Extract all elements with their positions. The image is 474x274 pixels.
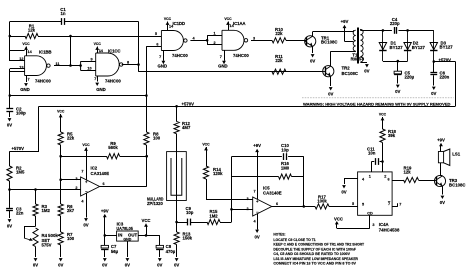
svg-text:0V: 0V (440, 200, 445, 205)
wire R9 rail right (120, 156, 147, 158)
wire R12 top (176, 106, 178, 121)
wire C9 to R15 (191, 222, 208, 224)
svg-text:CONNECT IC4 PIN 16 TO VCC AND: CONNECT IC4 PIN 16 TO VCC AND PIN 8 TO 0… (273, 262, 356, 266)
svg-text:0V: 0V (7, 223, 12, 228)
GM tube cathode (171, 158, 182, 195)
wire IC4 pin7 stub (392, 206, 398, 208)
junction gate1 output (69, 64, 72, 67)
wiper arrow R4 (24, 238, 31, 240)
wire IC3 OUT (138, 235, 160, 237)
ground 0V R7 (59, 258, 63, 261)
wire pin2 stub IC5 (232, 209, 253, 211)
svg-text:1n: 1n (60, 11, 65, 16)
wire gate2 input tie box (80, 61, 82, 70)
ground GND gate2 (97, 76, 99, 82)
svg-text:74HC00: 74HC00 (233, 53, 249, 58)
wire +570V to R2 (10, 151, 40, 153)
ground 0V C5 (396, 85, 400, 88)
svg-text:2: 2 (213, 41, 215, 45)
svg-text:100: 100 (67, 236, 75, 241)
diode D1 (382, 30, 384, 61)
junction VCC tap (145, 234, 148, 237)
svg-text:0V: 0V (431, 91, 436, 96)
svg-text:3: 3 (75, 177, 77, 181)
transformer T1 primary winding (353, 30, 356, 51)
wire R12 to tube (176, 134, 178, 152)
svg-text:BC108C: BC108C (449, 183, 465, 188)
svg-text:7: 7 (159, 55, 161, 59)
ground 0V IC3 (126, 258, 130, 261)
svg-text:CA3140E: CA3140E (91, 171, 110, 176)
junction feedback/output (303, 205, 306, 208)
svg-text:12k: 12k (28, 28, 36, 33)
svg-text:22k: 22k (67, 136, 75, 141)
wire IC3 GND pin (127, 241, 129, 257)
svg-text:100p: 100p (16, 111, 26, 116)
wire IC2 output up (146, 156, 148, 186)
ground 0V C3 (8, 219, 12, 222)
svg-text:10n: 10n (368, 151, 376, 156)
ground GND gate4 (224, 50, 226, 61)
svg-text:VCC: VCC (224, 17, 232, 21)
capacitor C3 (9, 190, 11, 208)
svg-text:220µ: 220µ (405, 75, 415, 80)
wire gate3 pin6 step (146, 46, 161, 48)
svg-text:74HC00: 74HC00 (172, 53, 188, 58)
GM tube V1 outer envelope (167, 152, 187, 201)
speaker LS1 (438, 152, 443, 163)
wire IC5 pin4 (257, 214, 259, 230)
wire R7 bottom (60, 245, 62, 257)
ground 0V C7 (103, 258, 107, 261)
capacitor C11 (375, 158, 377, 165)
svg-text:LOCATE C9 CLOSE TO T1: LOCATE C9 CLOSE TO T1 (273, 238, 315, 242)
ground 0V T1 secondary (365, 64, 369, 67)
svg-text:10p: 10p (186, 210, 194, 215)
wire HV top rail right (399, 30, 434, 32)
wire gate1 output stub (54, 65, 71, 67)
svg-text:1M0: 1M0 (281, 165, 290, 170)
wire R6 column (60, 180, 62, 204)
svg-text:0V: 0V (33, 263, 38, 268)
svg-text:7: 7 (399, 203, 401, 207)
svg-text:22n: 22n (16, 211, 24, 216)
svg-text:VCC: VCC (141, 218, 150, 223)
svg-text:7: 7 (253, 190, 255, 194)
svg-text:100: 100 (153, 136, 161, 141)
junction enable rail / C2 (9, 94, 12, 97)
monostable IC4A box (358, 172, 393, 215)
resistor R16 (279, 174, 292, 179)
svg-text:0V: 0V (125, 263, 130, 268)
wire +570V rail (39, 106, 455, 108)
svg-text:GND: GND (20, 87, 30, 92)
svg-text:560k: 560k (108, 145, 118, 150)
svg-text:BY127: BY127 (412, 45, 426, 50)
svg-text:4M7: 4M7 (182, 125, 191, 130)
svg-text:3: 3 (246, 197, 248, 201)
svg-text:+9V: +9V (341, 19, 349, 24)
wire pin3 stub IC2 (61, 179, 81, 181)
resistor R13 (176, 222, 178, 232)
svg-text:9: 9 (90, 57, 92, 61)
junction D2 top (406, 29, 409, 32)
svg-text:IC1BB: IC1BB (39, 50, 51, 55)
svg-text:6: 6 (388, 178, 390, 182)
transistor TR3 (434, 175, 445, 186)
wire HV top rail left (383, 30, 392, 32)
svg-text:+9V: +9V (253, 143, 261, 148)
svg-text:0V: 0V (102, 263, 107, 268)
svg-text:100k: 100k (317, 199, 327, 204)
svg-text:470µ: 470µ (166, 249, 176, 254)
potentiometer R4 (33, 228, 38, 247)
svg-text:120k: 120k (213, 171, 223, 176)
junction IC2 output/R9/R8 node (145, 155, 148, 158)
capacitor C8 (159, 235, 161, 245)
wire D1-D2 bottom rail (383, 61, 408, 63)
wire IC4 CD pin hook (369, 215, 371, 228)
resistor R8 column with zigzag (144, 132, 149, 145)
svg-text:1M2: 1M2 (42, 208, 51, 213)
svg-text:22k: 22k (275, 58, 283, 63)
wire gate4 output (251, 40, 272, 42)
svg-text:+570V: +570V (182, 101, 195, 106)
svg-text:CD: CD (367, 212, 373, 216)
wire gate2 output (122, 64, 139, 66)
ground 0V C2 (8, 118, 12, 121)
svg-text:220n: 220n (440, 75, 450, 80)
svg-text:0V: 0V (83, 222, 88, 227)
svg-text:5: 5 (155, 32, 157, 36)
wire pin12 loop top (10, 50, 25, 52)
voltage regulator IC3 box (117, 231, 139, 241)
svg-text:+9V: +9V (101, 208, 109, 213)
svg-text:12k: 12k (404, 170, 412, 175)
wire IC2 output (100, 186, 147, 188)
wire TR1 emitter (312, 47, 314, 53)
svg-text:IC1CC: IC1CC (108, 49, 121, 54)
junction R12 tap on +570V rail (175, 105, 178, 108)
ground 0V R4 (34, 258, 38, 261)
op-amp IC2 triangle (81, 177, 100, 196)
resistor R15 (207, 219, 220, 224)
junction tube anode / C9 / R13 (175, 221, 178, 224)
svg-text:BC108C: BC108C (342, 71, 358, 76)
wire pin13 loop bottom (10, 71, 25, 73)
capacitor C6 (433, 62, 435, 73)
wire R19 to TR3 base (419, 180, 435, 182)
svg-text:IC1AA: IC1AA (233, 21, 246, 26)
transformer T1 core (357, 28, 359, 64)
wire feedback right column (303, 157, 305, 207)
svg-text:VCC: VCC (379, 113, 387, 117)
svg-text:2: 2 (384, 175, 386, 179)
junction C11 tee (381, 160, 384, 163)
ground 0V R13 (175, 258, 179, 261)
svg-text:5: 5 (352, 202, 354, 206)
wire TR2 drive long wire (139, 71, 323, 73)
wire R16 rail right (292, 176, 304, 178)
resistor R18 (380, 129, 385, 143)
wire C11 down to pin1 (371, 162, 373, 172)
diode D2 (407, 30, 409, 61)
svg-text:GND: GND (158, 63, 168, 68)
svg-text:1: 1 (213, 32, 215, 36)
svg-text:ZP/1320: ZP/1320 (147, 201, 163, 206)
svg-text:IN: IN (118, 232, 122, 237)
wire R4 wiper hook (24, 226, 36, 228)
wire TR2 emitter (330, 76, 332, 86)
wire IC4 pin4 stub (344, 178, 358, 180)
svg-text:2k7: 2k7 (67, 208, 75, 213)
capacitor C1 (61, 18, 63, 25)
svg-text:GND: GND (218, 63, 228, 68)
svg-text:1M2: 1M2 (209, 213, 218, 218)
svg-text:2: 2 (75, 186, 77, 190)
junction gate2 output tee (137, 63, 140, 66)
wire node-A left column (C1/R1/pin12 column) (9, 22, 11, 62)
junction R1/gate1 output (69, 35, 72, 38)
svg-text:12: 12 (19, 57, 23, 61)
svg-text:74HC00: 74HC00 (105, 78, 121, 83)
wire T1 primary top (352, 31, 354, 33)
junction pin3 tee (59, 178, 62, 181)
svg-text:VCC: VCC (202, 143, 210, 147)
svg-text:150k: 150k (183, 236, 193, 241)
svg-text:74HC00: 74HC00 (35, 78, 51, 83)
wire pin12 stub (10, 60, 25, 62)
wire gate1-out to gate2 split (71, 65, 81, 67)
wire enable column (pin13/C2 column) (9, 69, 11, 96)
svg-text:0V: 0V (341, 189, 346, 194)
resistor R14 (203, 166, 208, 179)
svg-text:39k: 39k (388, 133, 396, 138)
svg-text:+9V: +9V (437, 137, 445, 142)
ground 0V C8 (158, 258, 162, 261)
svg-text:6: 6 (276, 202, 278, 206)
wire IC5 output (272, 206, 315, 208)
svg-text:13: 13 (19, 65, 23, 69)
wire enable rail (10, 95, 147, 97)
wire TR3 collector (441, 175, 442, 177)
ground 0V C6 (432, 87, 436, 90)
wire gate4 input tie box (207, 36, 209, 45)
svg-text:VCC: VCC (94, 42, 102, 46)
junction enable rail / R8 column (145, 94, 148, 97)
capacitor C5 (397, 61, 399, 71)
svg-text:3: 3 (253, 37, 255, 41)
resistor R1 (25, 33, 38, 38)
op-amp IC1A nand gate body (222, 30, 244, 50)
svg-text:CA3140E: CA3140E (263, 191, 282, 196)
svg-text:10p: 10p (281, 147, 289, 152)
junction node A at R1 (9, 35, 12, 38)
wire feedback left column (231, 157, 233, 210)
capacitor C9 (187, 219, 189, 226)
wire R3-R4 link (35, 216, 37, 226)
transistor TR1 (305, 36, 316, 47)
transformer T1 secondary winding (360, 29, 363, 62)
wire C10 rail (232, 156, 282, 158)
svg-text:UA78L05: UA78L05 (116, 226, 133, 231)
svg-text:C4, C5 AND C6 SHOULD BE RATED: C4, C5 AND C6 SHOULD BE RATED TO 1000V (273, 252, 350, 256)
svg-text:3: 3 (372, 223, 374, 227)
svg-text:8: 8 (127, 61, 129, 65)
junction D3 bottom +570V node (433, 60, 436, 63)
wire R5 to node (60, 145, 62, 180)
wire C1/gate2out column (138, 22, 140, 72)
svg-text:0V: 0V (7, 122, 12, 127)
resistor R11 (272, 69, 286, 74)
svg-text:LS1 IS ANY MINIATURE LOW IMPED: LS1 IS ANY MINIATURE LOW IMPEDANCE SPEAK… (273, 257, 358, 261)
svg-text:22k: 22k (275, 31, 283, 36)
svg-text:IC4A: IC4A (379, 222, 389, 227)
wire gate1 output vertical (70, 36, 72, 66)
wire R9 rail left (61, 156, 107, 158)
svg-text:IC1DD: IC1DD (173, 21, 185, 26)
wire IC2 pin4 (86, 193, 88, 217)
svg-text:6: 6 (103, 182, 105, 186)
wire gate3 pin6 / R8 column upper (146, 46, 148, 132)
wire R15 to pin2 corner (220, 222, 232, 224)
svg-text:7: 7 (94, 77, 96, 81)
svg-text:WARNING: HIGH VOLTAGE HAZARD R: WARNING: HIGH VOLTAGE HAZARD REMAINS WIT… (303, 101, 451, 106)
transistor TR2 (323, 66, 334, 77)
ground 0V IC2 (84, 218, 88, 221)
svg-text:5: 5 (362, 202, 364, 206)
svg-text:VCC: VCC (22, 42, 30, 46)
svg-text:BC108C: BC108C (321, 40, 337, 45)
junction R5/R9/pin3 node (59, 155, 62, 158)
svg-text:0V: 0V (328, 91, 333, 96)
junction C7/IN (104, 234, 107, 237)
svg-text:220p: 220p (390, 21, 400, 26)
svg-text:0V: 0V (364, 68, 369, 73)
svg-text:10: 10 (87, 67, 91, 71)
resistor R9 (107, 154, 120, 159)
capacitor C4 (394, 27, 396, 34)
svg-text:BY127: BY127 (390, 45, 404, 50)
resistor R6 (58, 204, 63, 216)
junction R2/C3/sense wire (8, 188, 11, 191)
wire R4 bottom (35, 247, 37, 257)
wire T1 primary centre tap (352, 41, 353, 43)
svg-text:11: 11 (56, 62, 60, 66)
svg-text:0V: 0V (254, 234, 259, 239)
op-amp IC1C nand gate body (96, 53, 120, 76)
svg-text:1M5: 1M5 (16, 170, 25, 175)
wire T1 secondary top (360, 29, 362, 30)
wire pin13 stub (10, 68, 25, 70)
wire gate3 output (190, 40, 207, 42)
op-amp IC1B nand gate body (25, 56, 47, 76)
svg-text:2: 2 (246, 207, 248, 211)
diode D3 (433, 30, 435, 61)
wire C10 rail right (288, 156, 304, 158)
svg-text:7: 7 (388, 202, 390, 206)
wire IC4 pin6 stub (392, 180, 403, 182)
resistor R10 (272, 38, 286, 43)
resistor R2 (9, 151, 11, 166)
resistor R12 (174, 122, 179, 134)
wire R6-R7 link (60, 216, 62, 232)
svg-text:74HC4538: 74HC4538 (379, 228, 400, 233)
wire C1 top rail (10, 21, 62, 23)
wire T1 secondary bottom (360, 62, 367, 64)
junction D1 top (382, 29, 385, 32)
wire sense wire to IC2 pin2 (10, 189, 81, 191)
junction gate4 input split (206, 39, 209, 42)
resistor R19 (404, 177, 419, 182)
wire R16 rail left (232, 176, 279, 178)
svg-text:NOTES:: NOTES: (273, 233, 285, 237)
svg-text:56µ: 56µ (111, 249, 119, 254)
svg-text:VCC: VCC (334, 216, 343, 221)
svg-text:GND: GND (96, 87, 106, 92)
junction pin2/feedback (230, 208, 233, 211)
svg-text:0V: 0V (310, 58, 315, 63)
wire TR3 emitter (442, 186, 444, 194)
svg-text:0V: 0V (395, 89, 400, 94)
ground 0V TR3 (441, 196, 445, 199)
svg-text:+570V: +570V (12, 146, 25, 151)
junction C5 (397, 60, 400, 63)
resistor R17 (315, 204, 329, 209)
svg-text:0V: 0V (58, 263, 63, 268)
wire +9V to IC3 IN (105, 235, 117, 237)
svg-text:7: 7 (81, 169, 83, 173)
wire R18 to pin2 (382, 143, 384, 172)
ground 0V IC5 (255, 230, 259, 233)
ground 0V TR2 (329, 87, 333, 90)
ground 0V TR1 (311, 54, 315, 57)
wire R8 bottom (146, 145, 148, 156)
svg-text:LS1: LS1 (452, 152, 460, 157)
capacitor C7 (104, 235, 106, 245)
wire R14 to pin3 (206, 179, 208, 199)
wire C11 right (380, 161, 383, 163)
resistor R3 (35, 190, 37, 205)
wire +570V corner down (38, 106, 40, 151)
svg-text:DECOUPLE THE SUPPLY OF EACH IC: DECOUPLE THE SUPPLY OF EACH IC WITH 100n… (273, 247, 356, 251)
svg-text:VCC: VCC (164, 17, 172, 21)
wire R1 left (10, 36, 25, 38)
capacitor C10 (283, 153, 285, 160)
ground GND gate3 (163, 51, 165, 61)
GM tube anode wire (176, 152, 178, 222)
junction R3 top (34, 188, 37, 191)
wire C11 link (372, 161, 375, 163)
svg-text:575V: 575V (42, 243, 52, 248)
op-amp IC5 triangle (253, 197, 272, 216)
svg-text:VCC: VCC (82, 143, 90, 147)
svg-text:0V: 0V (174, 263, 179, 268)
warning box top border (302, 97, 454, 99)
op-amp IC1D nand gate body (161, 31, 183, 51)
capacitor C2 (9, 96, 11, 109)
wire R17 to IC4 pin5 (329, 206, 358, 208)
svg-text:TR2: TR2 (342, 66, 351, 71)
ground 0V IC4 pin4 (342, 185, 346, 188)
svg-text:VCC: VCC (57, 110, 65, 114)
svg-text:0V: 0V (157, 263, 162, 268)
wire TR1 collector (312, 32, 314, 36)
svg-text:BY127: BY127 (440, 45, 454, 50)
wire C9 left (177, 222, 188, 224)
svg-text:6: 6 (156, 42, 158, 46)
svg-text:KEEP C AND E CONNECTIONS OF TR: KEEP C AND E CONNECTIONS OF TR1 AND TR2 … (273, 243, 364, 247)
